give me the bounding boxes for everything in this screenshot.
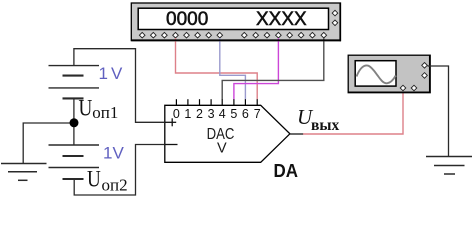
svg-text:V: V xyxy=(217,140,227,156)
oscilloscope bottom pins xyxy=(400,85,417,91)
oscilloscope sine wave xyxy=(357,65,396,83)
svg-text:V: V xyxy=(113,144,125,163)
DAC pin number labels 0-7 xyxy=(173,107,261,121)
DAC plus input symbol xyxy=(165,121,176,123)
display bottom pins group 1 xyxy=(139,32,222,38)
svg-text:1: 1 xyxy=(103,144,112,163)
digital display U2 body xyxy=(131,3,340,41)
oscilloscope right pins xyxy=(422,63,428,79)
wire gray display pin to DAC pin 4 xyxy=(222,38,324,100)
wire oscilloscope to right ground xyxy=(428,66,449,157)
svg-text:3: 3 xyxy=(208,107,215,121)
wire red output to oscilloscope xyxy=(303,91,403,135)
display bottom edge xyxy=(131,39,341,41)
svg-text:1: 1 xyxy=(184,107,191,121)
wire blue display pin to DAC pin 6 xyxy=(220,38,246,100)
svg-text:U: U xyxy=(87,167,101,192)
ground GND2 right xyxy=(426,157,472,175)
svg-text:7: 7 xyxy=(254,107,261,121)
svg-text:оп2: оп2 xyxy=(102,175,128,194)
svg-text:DA: DA xyxy=(274,161,299,181)
output stub from DAC point xyxy=(290,133,304,135)
svg-text:оп1: оп1 xyxy=(92,103,118,122)
svg-text:U: U xyxy=(79,96,93,121)
wire red display pin to DAC pin 7 xyxy=(176,38,258,100)
wire between batteries through node xyxy=(73,99,75,145)
battery V1 xyxy=(49,66,100,99)
ground GND1 left xyxy=(1,164,47,181)
DAC top pin ticks 0-7 xyxy=(176,99,257,105)
DAC U1 body xyxy=(165,105,290,162)
display bottom pins group 2 xyxy=(242,32,327,38)
svg-text:0: 0 xyxy=(173,107,180,121)
wire DAC plus input from battery V1 top xyxy=(74,49,165,123)
svg-text:1: 1 xyxy=(99,64,108,83)
node junction dot xyxy=(70,118,79,127)
svg-text:4: 4 xyxy=(219,107,226,121)
display right side pins xyxy=(332,10,338,25)
battery V2 xyxy=(49,145,100,179)
wire DAC minus input from battery V2 bottom xyxy=(74,145,165,196)
svg-text:5: 5 xyxy=(230,107,237,121)
svg-text:XXXX: XXXX xyxy=(256,9,307,30)
DAC minus input symbol xyxy=(165,144,178,146)
svg-text:вых: вых xyxy=(311,117,339,134)
wire node to left ground xyxy=(23,123,74,164)
wire magenta display pin to DAC pin 5 xyxy=(234,38,279,100)
svg-text:0000: 0000 xyxy=(166,9,208,30)
svg-text:6: 6 xyxy=(242,107,249,121)
oscilloscope XSC1 body xyxy=(348,55,430,93)
svg-text:2: 2 xyxy=(196,107,203,121)
svg-text:V: V xyxy=(111,64,123,83)
